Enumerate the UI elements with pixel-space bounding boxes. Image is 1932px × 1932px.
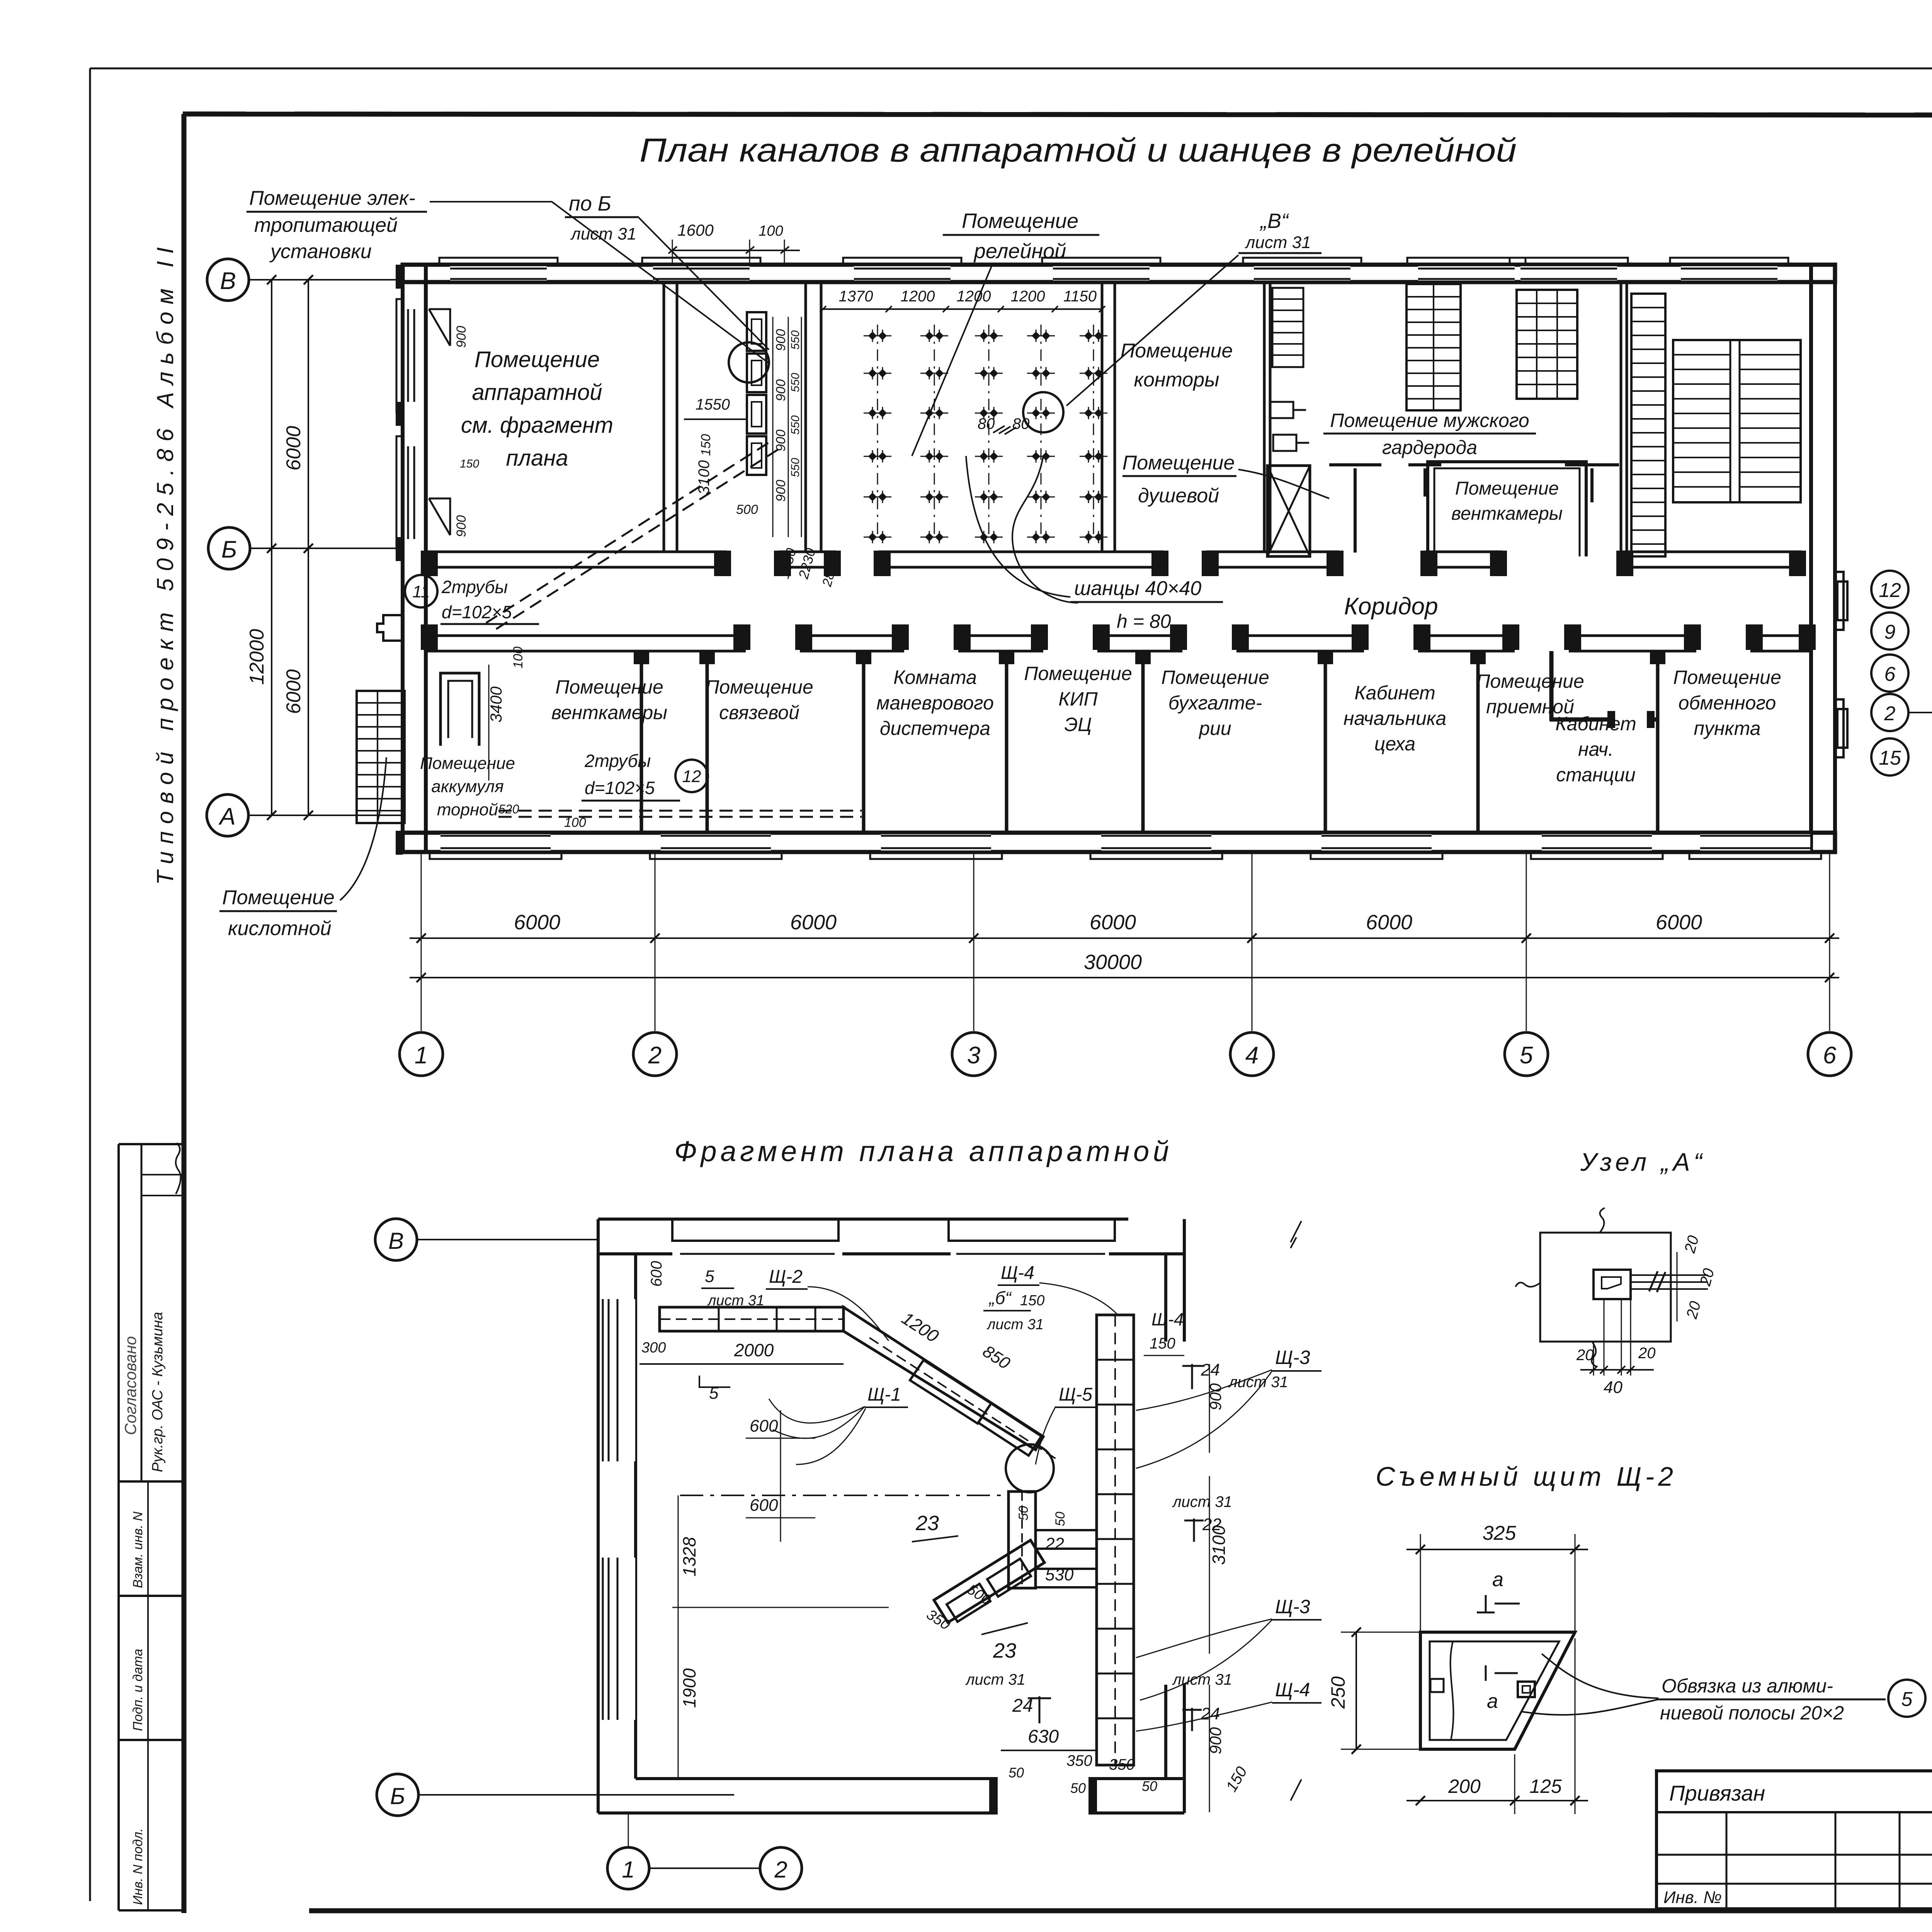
left attribute cells xyxy=(119,1480,183,1483)
svg-text:Щ-3: Щ-3 xyxy=(1275,1347,1310,1368)
svg-text:Съемный щит Щ-2: Съемный щит Щ-2 xyxy=(1376,1461,1673,1492)
svg-text:бухгалте-: бухгалте- xyxy=(1168,692,1262,714)
svg-text:6000: 6000 xyxy=(282,426,305,471)
svg-text:КИП: КИП xyxy=(1058,688,1098,710)
window xyxy=(653,266,750,281)
window xyxy=(1101,834,1211,850)
svg-text:6: 6 xyxy=(1884,663,1896,685)
svg-text:100: 100 xyxy=(759,223,783,239)
svg-text:900: 900 xyxy=(454,515,469,537)
svg-text:нач.: нач. xyxy=(1578,738,1614,760)
svg-text:„В“: „В“ xyxy=(1260,209,1289,233)
svg-text:24: 24 xyxy=(1201,1361,1220,1379)
fragment top windows xyxy=(672,1219,838,1241)
left agreement box column xyxy=(117,1144,120,1910)
lower diagonal chain 23 xyxy=(934,1540,1044,1622)
аккумуляторная inner chamber xyxy=(440,673,479,746)
fragment top wall xyxy=(598,1218,1128,1221)
axis В circle xyxy=(207,259,249,301)
svg-text:150: 150 xyxy=(699,434,713,456)
svg-text:150: 150 xyxy=(1150,1335,1175,1352)
svg-text:150: 150 xyxy=(1020,1293,1044,1309)
drawing frame thick border xyxy=(183,114,1932,116)
svg-text:200: 200 xyxy=(1448,1776,1481,1797)
svg-text:Помещение: Помещение xyxy=(1476,670,1584,692)
щ-2 panel outline xyxy=(1420,1632,1575,1749)
svg-text:Инв. №: Инв. № xyxy=(1663,1888,1722,1907)
svg-text:22: 22 xyxy=(1045,1534,1064,1553)
svg-text:аккумуля: аккумуля xyxy=(431,777,504,796)
svg-text:3100: 3100 xyxy=(696,460,713,495)
dashed pipes horizontal xyxy=(498,810,862,812)
left vertical dim lines xyxy=(271,280,272,815)
svg-text:аппаратной: аппаратной xyxy=(472,380,602,405)
svg-text:Щ-4: Щ-4 xyxy=(1275,1679,1310,1701)
svg-text:Щ-2: Щ-2 xyxy=(769,1267,803,1287)
svg-text:установки: установки xyxy=(269,240,372,263)
svg-text:Помещение: Помещение xyxy=(962,209,1078,233)
dim 1600 100 top xyxy=(672,250,800,251)
svg-text:1328: 1328 xyxy=(679,1537,699,1577)
axis Б circle xyxy=(208,527,250,569)
svg-text:душевой: душевой xyxy=(1138,485,1219,507)
uzel strips right xyxy=(1631,1274,1708,1276)
svg-text:торной: торной xyxy=(437,800,498,819)
svg-text:Коридор: Коридор xyxy=(1344,593,1438,620)
svg-text:2: 2 xyxy=(648,1042,662,1069)
svg-text:Обвязка из алюми-: Обвязка из алюми- xyxy=(1662,1675,1833,1697)
svg-text:цеха: цеха xyxy=(1374,733,1415,755)
svg-text:рии: рии xyxy=(1198,718,1231,739)
uzel dim lines xyxy=(1604,1299,1605,1376)
window xyxy=(1700,834,1810,850)
fragment axis 1 2 circles bottom xyxy=(607,1847,649,1889)
svg-text:250: 250 xyxy=(1327,1676,1349,1709)
bench T1 xyxy=(1329,463,1381,466)
svg-text:900: 900 xyxy=(774,430,788,452)
svg-text:2: 2 xyxy=(774,1857,787,1883)
fragment bottom wall xyxy=(598,1811,998,1815)
svg-text:начальника: начальника xyxy=(1344,707,1446,729)
svg-text:11: 11 xyxy=(412,582,430,601)
locker block A гардероб xyxy=(1406,284,1461,410)
svg-text:тропитающей: тропитающей xyxy=(254,214,398,236)
svg-text:Помещение мужского: Помещение мужского xyxy=(1330,410,1529,431)
bottom dim line 30000 xyxy=(410,977,1839,978)
svg-text:Щ-4: Щ-4 xyxy=(1001,1263,1034,1283)
svg-text:630: 630 xyxy=(1028,1726,1059,1747)
svg-text:лист 31: лист 31 xyxy=(570,224,636,243)
svg-text:3100: 3100 xyxy=(1209,1525,1229,1565)
svg-text:2трубы: 2трубы xyxy=(584,751,651,771)
svg-text:В: В xyxy=(388,1228,404,1254)
svg-text:гардерода: гардерода xyxy=(1382,437,1477,458)
svg-text:Подп. и дата: Подп. и дата xyxy=(131,1649,145,1731)
dims 200 125 xyxy=(1406,1800,1588,1801)
svg-text:Кабинет: Кабинет xyxy=(1555,713,1636,735)
апп room small vent boxes xyxy=(429,309,450,346)
bottom row partitions xyxy=(640,651,643,833)
привязан table xyxy=(1656,1771,1932,1909)
svg-text:лист 31: лист 31 xyxy=(1172,1671,1232,1688)
svg-text:Рук.гр. ОАС - Кузьмина: Рук.гр. ОАС - Кузьмина xyxy=(150,1312,166,1472)
svg-text:24: 24 xyxy=(1201,1704,1220,1723)
svg-text:станции: станции xyxy=(1556,764,1636,786)
svg-text:В: В xyxy=(220,268,236,294)
locker block B гардероб xyxy=(1517,290,1577,399)
svg-text:40: 40 xyxy=(1604,1378,1622,1397)
cross detail circle marker xyxy=(1023,392,1063,432)
svg-text:23: 23 xyxy=(993,1639,1016,1662)
center axis dashdot xyxy=(680,1495,1009,1496)
svg-text:Б: Б xyxy=(390,1783,405,1809)
svg-text:550: 550 xyxy=(789,373,802,392)
svg-text:конторы: конторы xyxy=(1134,369,1219,391)
svg-text:Помещение: Помещение xyxy=(705,676,813,698)
svg-text:Помещение: Помещение xyxy=(1122,452,1235,474)
corner circle Щ-5 xyxy=(1006,1444,1054,1492)
svg-text:1200: 1200 xyxy=(1011,288,1045,305)
svg-text:d=102×5: d=102×5 xyxy=(585,778,655,798)
svg-text:1: 1 xyxy=(622,1857,634,1883)
svg-text:600: 600 xyxy=(648,1261,665,1287)
svg-text:50: 50 xyxy=(1070,1780,1086,1796)
svg-text:по Б: по Б xyxy=(569,192,611,215)
fragment axis circles xyxy=(375,1219,417,1260)
left wall windows frag xyxy=(600,1299,635,1461)
релейная top dims 1370 1200 1200 1200 1150 xyxy=(823,308,1102,310)
svg-text:лист 31: лист 31 xyxy=(1244,233,1311,252)
svg-text:6000: 6000 xyxy=(1656,911,1702,934)
svg-text:23: 23 xyxy=(915,1512,939,1535)
svg-text:ниевой полосы 20×2: ниевой полосы 20×2 xyxy=(1660,1702,1844,1724)
break squiggles xyxy=(1600,1208,1605,1233)
svg-text:Помещение: Помещение xyxy=(420,754,515,773)
svg-text:Кабинет: Кабинет xyxy=(1354,682,1435,704)
svg-text:лист 31: лист 31 xyxy=(1172,1493,1232,1510)
svg-text:Помещение: Помещение xyxy=(1024,663,1132,684)
window xyxy=(1681,266,1777,281)
svg-text:80: 80 xyxy=(978,415,995,432)
svg-text:лист 31: лист 31 xyxy=(1228,1374,1288,1391)
dashed pipes diagonal xyxy=(486,440,772,623)
fragment left wall xyxy=(597,1219,600,1813)
axis А circle xyxy=(207,794,248,836)
svg-text:Щ-3: Щ-3 xyxy=(1275,1596,1310,1617)
partition контора right xyxy=(1263,282,1266,552)
svg-text:пункта: пункта xyxy=(1694,718,1760,739)
svg-text:600: 600 xyxy=(750,1496,778,1515)
svg-text:Щ-1: Щ-1 xyxy=(867,1384,901,1405)
svg-text:Взам. инв. N: Взам. инв. N xyxy=(131,1512,145,1588)
svg-text:5: 5 xyxy=(1520,1042,1533,1069)
svg-text:Помещение: Помещение xyxy=(474,347,600,372)
locker ladder контора right xyxy=(1272,288,1303,367)
svg-text:530: 530 xyxy=(1045,1565,1074,1584)
svg-text:520: 520 xyxy=(498,802,519,816)
svg-text:5: 5 xyxy=(705,1267,714,1286)
svg-text:6: 6 xyxy=(1823,1042,1837,1069)
svg-text:Помещение: Помещение xyxy=(222,886,335,909)
svg-text:лист 31: лист 31 xyxy=(986,1316,1044,1333)
svg-text:15: 15 xyxy=(1879,747,1901,769)
svg-text:900: 900 xyxy=(774,480,788,502)
main staircase flights xyxy=(1673,340,1801,502)
svg-text:550: 550 xyxy=(789,458,802,477)
uzel right dims 20s xyxy=(1677,1252,1678,1321)
partition staircase left xyxy=(1620,282,1622,552)
svg-text:Фрагмент плана аппаратной: Фрагмент плана аппаратной xyxy=(674,1135,1169,1167)
svg-text:Помещение: Помещение xyxy=(1455,478,1559,499)
vertical panel column Щ-3 right xyxy=(1097,1315,1134,1765)
window xyxy=(1254,266,1350,281)
svg-text:1: 1 xyxy=(415,1042,428,1069)
svg-text:ЭЦ: ЭЦ xyxy=(1064,714,1092,735)
svg-text:1900: 1900 xyxy=(679,1668,699,1708)
corridor top wall xyxy=(425,551,726,553)
window xyxy=(1418,266,1515,281)
svg-text:лист 31: лист 31 xyxy=(707,1293,764,1309)
svg-text:1550: 1550 xyxy=(696,396,730,413)
svg-text:50: 50 xyxy=(1142,1778,1157,1794)
left circles column xyxy=(1871,571,1908,608)
svg-text:Комната: Комната xyxy=(893,667,977,688)
svg-text:6000: 6000 xyxy=(790,911,837,934)
freehand break in panel xyxy=(1451,1641,1454,1740)
bottom dim line 6000s xyxy=(410,937,1839,939)
sanitary fixtures xyxy=(1270,402,1293,418)
svg-text:Б: Б xyxy=(221,536,237,563)
window xyxy=(1321,834,1432,850)
svg-text:100: 100 xyxy=(511,646,526,668)
svg-text:венткамеры: венткамеры xyxy=(1451,503,1563,524)
svg-text:лист 31: лист 31 xyxy=(965,1671,1026,1688)
window xyxy=(854,266,951,281)
svg-text:1370: 1370 xyxy=(839,288,873,305)
building exterior walls xyxy=(403,265,1835,282)
staircase ladder strip xyxy=(1631,294,1665,556)
svg-text:а: а xyxy=(1487,1690,1498,1713)
dim 250 xyxy=(1355,1632,1357,1749)
uzel plate xyxy=(1594,1270,1631,1299)
diagonal panel boxes xyxy=(910,1360,991,1423)
bottom axis extension lines xyxy=(421,852,422,1031)
svg-text:1200: 1200 xyxy=(901,288,935,305)
svg-text:диспетчера: диспетчера xyxy=(880,718,990,739)
svg-text:1200: 1200 xyxy=(957,288,991,305)
svg-text:шанцы 40×40: шанцы 40×40 xyxy=(1074,577,1201,600)
partition panels/релейная xyxy=(804,282,807,552)
svg-text:Щ-4: Щ-4 xyxy=(1151,1309,1184,1329)
external stair bottom-left xyxy=(357,691,405,823)
axis lines В Б А xyxy=(249,279,403,281)
fragment right wall xyxy=(1164,1254,1167,1342)
релейная crosses grid xyxy=(877,325,878,539)
svg-text:12: 12 xyxy=(1879,579,1901,602)
svg-text:6000: 6000 xyxy=(282,669,305,714)
svg-text:9: 9 xyxy=(1884,621,1896,643)
svg-text:12000: 12000 xyxy=(246,629,268,685)
svg-text:2трубы: 2трубы xyxy=(441,577,508,597)
svg-text:150: 150 xyxy=(460,457,479,470)
svg-text:Помещение: Помещение xyxy=(555,676,663,698)
corridor bottom wall xyxy=(425,634,746,637)
window xyxy=(661,834,771,850)
window xyxy=(1542,834,1652,850)
svg-text:500: 500 xyxy=(736,502,758,517)
vertical chain below corner xyxy=(1009,1492,1036,1588)
svg-text:2000: 2000 xyxy=(734,1340,774,1360)
svg-text:А: А xyxy=(218,803,235,830)
partition апп/panels xyxy=(663,282,665,552)
2 трубы upper callout xyxy=(405,575,437,607)
svg-text:венткамеры: венткамеры xyxy=(551,702,667,723)
svg-text:350: 350 xyxy=(1066,1752,1092,1769)
svg-text:550: 550 xyxy=(789,330,802,350)
svg-text:релейной: релейной xyxy=(973,240,1066,263)
svg-text:6000: 6000 xyxy=(514,911,560,934)
bench T3 xyxy=(1565,463,1619,466)
svg-text:плана: плана xyxy=(506,446,568,471)
signature squiggle xyxy=(176,1143,181,1194)
dimension chains in panel zone xyxy=(772,317,774,537)
left wall windows xyxy=(405,309,424,402)
svg-text:20: 20 xyxy=(1576,1347,1594,1364)
fragment break marks right xyxy=(1291,1221,1301,1248)
svg-text:2: 2 xyxy=(1884,702,1896,725)
small connectors xyxy=(1036,1530,1097,1549)
sheet outer boundary thin line xyxy=(90,68,1932,70)
svg-text:50: 50 xyxy=(1053,1512,1068,1526)
dim 325 xyxy=(1406,1549,1588,1550)
window xyxy=(1520,266,1617,281)
svg-text:кислотной: кислотной xyxy=(228,917,332,940)
svg-text:12: 12 xyxy=(682,767,701,786)
bottom axis circles 1-6 xyxy=(400,1032,443,1076)
svg-text:900: 900 xyxy=(774,379,788,401)
svg-text:3: 3 xyxy=(967,1042,980,1069)
венткамера enclosure xyxy=(1428,462,1586,556)
svg-text:50: 50 xyxy=(1016,1506,1031,1520)
svg-text:обменного: обменного xyxy=(1679,692,1776,714)
svg-text:6000: 6000 xyxy=(1366,911,1412,934)
svg-text:350: 350 xyxy=(1109,1756,1135,1773)
bench T2 xyxy=(1408,463,1441,466)
svg-text:4: 4 xyxy=(1245,1042,1259,1069)
svg-text:20: 20 xyxy=(1638,1345,1656,1362)
svg-text:5: 5 xyxy=(1901,1688,1913,1711)
svg-text:связевой: связевой xyxy=(719,702,799,723)
svg-text:900: 900 xyxy=(454,326,469,348)
svg-text:550: 550 xyxy=(789,415,802,435)
svg-text:Щ-5: Щ-5 xyxy=(1059,1384,1092,1405)
panel detail circle xyxy=(729,342,769,383)
приемная internal walls xyxy=(1549,651,1554,721)
lift shaft with X xyxy=(1267,466,1310,556)
svg-text:3400: 3400 xyxy=(487,686,505,723)
svg-text:1600: 1600 xyxy=(677,221,714,239)
svg-text:см. фрагмент: см. фрагмент xyxy=(461,413,613,438)
svg-text:1150: 1150 xyxy=(1063,288,1097,305)
svg-text:а: а xyxy=(1492,1568,1503,1591)
left wall pilasters xyxy=(396,265,403,289)
svg-text:325: 325 xyxy=(1483,1522,1517,1544)
svg-text:30000: 30000 xyxy=(1084,951,1142,974)
svg-text:Помещение: Помещение xyxy=(1673,667,1781,688)
panel chain horizontal Щ-2 xyxy=(660,1307,844,1331)
svg-text:900: 900 xyxy=(774,329,788,351)
window xyxy=(1053,266,1150,281)
svg-text:300: 300 xyxy=(641,1340,666,1356)
svg-text:Помещение элек-: Помещение элек- xyxy=(249,187,415,209)
svg-text:Согласовано: Согласовано xyxy=(121,1336,139,1435)
svg-text:h = 80: h = 80 xyxy=(1117,611,1171,632)
window xyxy=(440,834,551,850)
window xyxy=(881,834,991,850)
small holes xyxy=(1430,1679,1444,1692)
svg-text:600: 600 xyxy=(750,1417,778,1435)
svg-text:6000: 6000 xyxy=(1090,911,1136,934)
svg-text:d=102×5: d=102×5 xyxy=(442,602,512,622)
svg-text:План каналов в аппаратной и ша: План каналов в аппаратной и шанцев в рел… xyxy=(639,132,1517,169)
uzel outline xyxy=(1540,1233,1671,1342)
right wall door bumps xyxy=(1835,572,1844,630)
svg-text:маневрового: маневрового xyxy=(876,692,994,714)
svg-text:125: 125 xyxy=(1529,1776,1562,1797)
svg-text:50: 50 xyxy=(1009,1765,1024,1781)
window xyxy=(450,266,547,281)
svg-text:Помещение: Помещение xyxy=(1161,667,1269,688)
svg-text:Привязан: Привязан xyxy=(1669,1781,1765,1805)
panel zone: vertical panel chain xyxy=(747,312,766,351)
panel chain diagonal xyxy=(844,1307,1043,1450)
partition релейная/контора xyxy=(1101,282,1104,552)
svg-text:„б“: „б“ xyxy=(988,1288,1012,1308)
exterior door symbol left xyxy=(377,615,403,641)
svg-text:Инв. N подл.: Инв. N подл. xyxy=(131,1828,145,1905)
